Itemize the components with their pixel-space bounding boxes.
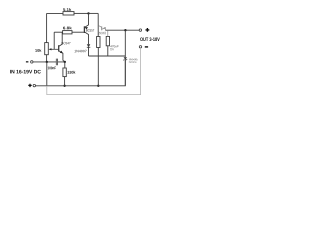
label 2N3055 bbox=[98, 32, 106, 34]
wire cap top lead bbox=[107, 30, 109, 36]
label 1N4007 bbox=[74, 50, 86, 52]
wire minus return vertical bbox=[46, 62, 48, 86]
capacitor C1 100nF plates bbox=[56, 59, 57, 66]
wire collector drop Q3 bbox=[97, 13, 99, 36]
node junction pot bottom bbox=[46, 61, 48, 63]
wire bbox=[64, 62, 66, 68]
node junction R3 bottom bbox=[97, 85, 99, 87]
transistor Q1 BC547 bbox=[58, 45, 60, 51]
wire bbox=[97, 48, 99, 86]
wire 6.8k left vertical bbox=[53, 32, 55, 49]
wire cap bottom lead bbox=[107, 46, 109, 56]
label BC547 bbox=[62, 42, 71, 44]
label 100nF bbox=[48, 67, 56, 70]
resistor R2 330k bbox=[63, 68, 66, 77]
label OUT 3-18V bbox=[140, 37, 160, 41]
label 10k bbox=[35, 49, 41, 52]
transistor Q2 BC557 bbox=[83, 26, 85, 33]
resistor R3 (mid-left) bbox=[97, 37, 100, 48]
wire pot bottom lead bbox=[46, 55, 48, 62]
wire bbox=[54, 31, 62, 33]
zener diode ZD1 bbox=[124, 57, 127, 60]
label BC557 bbox=[86, 29, 94, 31]
wire emitter out bbox=[105, 29, 139, 31]
label 470uF bbox=[110, 45, 118, 47]
potentiometer 10k body bbox=[45, 43, 49, 55]
label 6.8k bbox=[63, 26, 72, 29]
node junction top bbox=[87, 12, 89, 14]
terminal OUT - bbox=[139, 46, 141, 48]
terminal IN + circle bbox=[33, 84, 35, 86]
diode D1 1N4007 bbox=[87, 44, 91, 47]
wire input minus bbox=[33, 61, 65, 63]
wire bottom rail bbox=[36, 60, 126, 86]
wire + out vertical bbox=[124, 30, 126, 56]
node junction out bbox=[124, 29, 126, 31]
wire bbox=[74, 12, 89, 14]
capacitor C2 470uF body bbox=[106, 37, 109, 46]
label IN 16-19V DC bbox=[10, 70, 41, 74]
transistor Q3 2N3055 bbox=[98, 25, 101, 27]
node junction 330k bottom bbox=[63, 85, 65, 87]
node junction cap right bbox=[64, 61, 66, 63]
wire mid rail bbox=[89, 55, 126, 57]
label zenera bbox=[129, 61, 137, 62]
wire base BC557 bbox=[72, 31, 84, 33]
wire bbox=[89, 12, 99, 14]
label 330k bbox=[67, 71, 75, 74]
terminal OUT + bbox=[139, 29, 141, 31]
wire left rail bbox=[46, 13, 48, 42]
wire bbox=[64, 77, 66, 86]
resistor 5.1k bbox=[63, 12, 74, 15]
resistor 6.8k bbox=[63, 31, 72, 34]
wire top rail bbox=[47, 12, 63, 14]
wire gray return path bbox=[47, 48, 141, 95]
label 25V bbox=[110, 48, 114, 50]
label dioda bbox=[129, 58, 137, 60]
label 5.1k bbox=[63, 8, 71, 11]
potentiometer wiper arrow bbox=[50, 48, 59, 50]
terminal IN - circle bbox=[31, 61, 33, 63]
